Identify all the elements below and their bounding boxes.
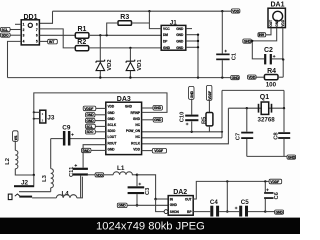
capacitor C4 (210, 199, 219, 216)
svg-text:C6: C6 (274, 191, 280, 199)
wire gnd rail (8, 77, 231, 79)
inductor L1 (104, 165, 137, 175)
label VDD R4 (248, 75, 257, 80)
wire left vert up (221, 90, 223, 137)
svg-text:4: 4 (23, 39, 25, 43)
svg-text:DD1: DD1 (24, 14, 38, 21)
wire R2 line to J1 (89, 47, 162, 49)
label GND DA1 (243, 39, 252, 44)
node C5 C6 gnd (264, 210, 266, 212)
wire SHDN tie (156, 199, 164, 212)
IC DA2 (164, 189, 193, 215)
node gnd J1 (197, 76, 199, 78)
label INH (258, 33, 266, 38)
svg-text:GND: GND (288, 156, 296, 160)
wire J1 VCC from rail (149, 11, 161, 28)
wire J2 middle contact (19, 191, 51, 193)
label GND L2 (86, 113, 106, 118)
label GND crystal (287, 155, 296, 160)
svg-text:1: 1 (23, 22, 25, 26)
diode VD2 (96, 35, 113, 77)
svg-text:ROUT: ROUT (108, 141, 117, 145)
svg-text:SDO: SDO (2, 34, 10, 38)
svg-text:VDDF: VDDF (208, 91, 212, 100)
svg-text:VDD: VDD (281, 19, 285, 26)
node C3 gnd (136, 204, 139, 207)
wire J3 stubs (34, 112, 40, 118)
node POW vert (221, 131, 223, 133)
wire C2 left from gnd line (252, 41, 264, 59)
node top rail J1 (148, 10, 150, 12)
wire top rail (53, 10, 232, 12)
wire antenna vert down (33, 112, 35, 175)
wire DA1 VDD down (282, 28, 284, 60)
svg-text:VDD: VDD (232, 9, 240, 13)
node J3 top (33, 111, 35, 113)
resistor R5 (202, 101, 213, 132)
node bp mid (226, 210, 228, 212)
label W1 antenna rot (13, 131, 18, 142)
wire ROUT to C11 (83, 145, 106, 168)
svg-text:C7: C7 (236, 133, 242, 140)
capacitor C3 (128, 175, 152, 206)
wire crystal top edge (222, 89, 284, 91)
svg-text:VCC: VCC (163, 27, 170, 31)
svg-text:GND: GND (163, 46, 171, 50)
capacitor C2 (264, 47, 283, 64)
svg-text:GND: GND (232, 76, 240, 80)
svg-text:GND: GND (108, 111, 116, 115)
capacitor C10 (179, 99, 198, 131)
node J3 bottom (33, 118, 35, 120)
svg-text:6: 6 (36, 34, 38, 38)
watermark band (0, 218, 300, 234)
svg-text:SCL: SCL (2, 28, 9, 32)
resistor R3 (118, 14, 132, 25)
label GND rail end (231, 76, 240, 81)
svg-text:VDDF: VDDF (270, 180, 279, 184)
svg-text:DM: DM (163, 33, 168, 37)
label GND DA2 (117, 203, 127, 208)
svg-text:C3: C3 (145, 187, 151, 195)
node crystal right (283, 107, 285, 109)
svg-text:J3: J3 (47, 114, 55, 121)
svg-text:NC: NC (135, 135, 140, 139)
IC DD1 (21, 14, 39, 45)
svg-text:C8: C8 (273, 132, 279, 140)
IC DA3 (106, 96, 142, 155)
wire DD1 pin2 (10, 29, 21, 31)
label VDD C11 (95, 173, 104, 178)
svg-text:C11: C11 (69, 166, 75, 177)
svg-text:2: 2 (23, 28, 25, 32)
wire DD1 pin4 to gnd rail (8, 41, 22, 77)
svg-text:OUT: OUT (185, 197, 192, 201)
svg-text:VDD: VDD (96, 173, 104, 177)
inductor L4 (56, 177, 82, 198)
svg-text:NC: NC (135, 123, 140, 127)
wire DA1 OUT to label (266, 28, 271, 35)
svg-text:LOUT: LOUT (108, 135, 117, 139)
svg-text:VDDF: VDDF (84, 107, 93, 111)
node L1 C3 (136, 174, 139, 177)
svg-text:GND: GND (86, 113, 94, 117)
capacitor C6 (264, 181, 280, 211)
svg-text:GND: GND (176, 40, 184, 44)
svg-text:1024x749 80kb JPEG: 1024x749 80kb JPEG (96, 221, 205, 233)
capacitor C1 (216, 11, 237, 77)
inductor L3 (42, 139, 54, 192)
wire J2 sleeve to L4 (32, 197, 56, 199)
node J1 gnd 4 (197, 46, 199, 48)
connector J1 (161, 20, 186, 51)
svg-text:R1: R1 (78, 26, 87, 33)
wire DD1 pin8 to rail (39, 11, 52, 23)
label VDDF rail (269, 179, 282, 184)
resistor R2 (75, 39, 88, 51)
svg-text:L3: L3 (42, 174, 48, 182)
svg-text:C9: C9 (62, 125, 71, 132)
wire J1 gnd vertical (197, 35, 199, 78)
node top rail C1 (221, 10, 223, 12)
diode VD1 (126, 48, 143, 78)
label VDDF R8 (142, 148, 167, 153)
jack J2 (8, 175, 34, 200)
wire row6 line (142, 137, 222, 139)
svg-text:POW_ON: POW_ON (126, 129, 141, 133)
label GND C5 (275, 210, 284, 215)
svg-text:SDO: SDO (86, 130, 94, 134)
label GND R1 (142, 106, 163, 111)
node gnd C1 (221, 76, 223, 78)
svg-text:GND: GND (176, 27, 184, 31)
resistor R1 (75, 26, 89, 38)
svg-text:5: 5 (36, 39, 38, 43)
svg-text:VDD: VDD (248, 76, 256, 80)
label SCL L4 (86, 124, 106, 129)
svg-text:C4: C4 (210, 199, 218, 206)
node gnd VD2 (99, 76, 101, 78)
capacitor C8 (273, 108, 290, 156)
svg-text:C1: C1 (232, 52, 238, 60)
wire DD1 pin6 to R1 (39, 34, 75, 36)
svg-text:GND: GND (190, 90, 194, 98)
wire crystal gnd rail (247, 155, 287, 157)
svg-text:Q1: Q1 (260, 94, 269, 101)
wire DD1 pin5 to label (39, 40, 47, 42)
node DA2 IN (154, 198, 157, 201)
wire to gnd label (265, 211, 274, 213)
svg-text:R5: R5 (202, 116, 208, 124)
wire DD1 pin7 jog to R2 (39, 29, 75, 48)
node C7 (246, 107, 248, 109)
inductor L2 (5, 141, 34, 175)
wire R3 left (107, 23, 118, 35)
svg-text:C2: C2 (264, 47, 273, 54)
wire BP line (193, 211, 265, 213)
regulator DA1 (268, 2, 285, 28)
label SDO (1, 33, 11, 38)
svg-text:GND: GND (170, 203, 178, 207)
label GND L3 (86, 118, 106, 123)
svg-text:GND: GND (108, 147, 116, 151)
svg-text:GND: GND (154, 118, 162, 122)
svg-text:L1: L1 (117, 165, 125, 172)
node C2 vdd rail (282, 58, 284, 60)
svg-text:VDD: VDD (133, 147, 140, 151)
svg-text:RFINP: RFINP (130, 111, 140, 115)
wire crystal line (228, 107, 284, 109)
capacitor C7 (236, 108, 254, 156)
wire DA1 GND to label (249, 28, 276, 41)
connector J3 (40, 110, 55, 123)
svg-text:C10: C10 (179, 112, 185, 123)
wire vdd vert to R4 (282, 60, 284, 78)
node antenna L2 J2 (33, 174, 35, 176)
wire to DA2 IN (137, 175, 156, 199)
label VDDF rot R5 (207, 85, 212, 100)
svg-text:GND: GND (244, 40, 252, 44)
svg-text:INH: INH (259, 33, 265, 37)
svg-text:32768: 32768 (258, 117, 276, 124)
svg-text:8: 8 (36, 22, 38, 26)
svg-text:VDD: VDD (108, 105, 115, 109)
capacitor C9 (51, 125, 106, 146)
wire DA2 OUT rail (193, 181, 269, 199)
svg-text:SHDN: SHDN (170, 210, 180, 214)
resistor R4 (256, 68, 283, 88)
wire POW line from DA3 (142, 131, 222, 133)
label SDO L5 (86, 130, 106, 135)
svg-text:DA2: DA2 (173, 189, 187, 196)
wire DD1 pin3 (10, 34, 21, 36)
wire RFINP to antenna (34, 93, 167, 113)
label GND L8 (82, 148, 106, 153)
node C10 bottom (191, 131, 193, 133)
wire gnd label to da2 (127, 204, 168, 206)
svg-text:GND: GND (118, 204, 126, 208)
node R2/VD1 (129, 47, 131, 49)
wire right down to crystal line (283, 90, 285, 108)
svg-text:GND: GND (176, 33, 184, 37)
label GND R3 (142, 118, 163, 123)
svg-text:SCLK: SCLK (108, 123, 117, 127)
svg-text:GND: GND (276, 211, 284, 215)
svg-text:7: 7 (36, 28, 38, 32)
node R1/VD2 (99, 34, 101, 36)
label GND rot C10 (189, 86, 194, 99)
wire J1 right stubs (186, 28, 192, 30)
wire R1 line to J1 (89, 34, 161, 36)
svg-text:GND: GND (86, 119, 94, 123)
svg-text:GND: GND (108, 117, 116, 121)
svg-text:W1: W1 (14, 135, 18, 140)
svg-text:VD1: VD1 (137, 59, 143, 71)
crystal Q1 (258, 94, 276, 123)
wire DD1 pin1 stub (15, 23, 21, 25)
svg-text:100: 100 (266, 82, 277, 89)
svg-text:OUT: OUT (269, 20, 273, 27)
svg-text:VD2: VD2 (107, 59, 113, 70)
node rail C4C5 vert (226, 180, 228, 182)
svg-text:RCLK: RCLK (131, 141, 141, 145)
label VDDF (83, 106, 106, 111)
svg-text:C5: C5 (241, 199, 249, 206)
node J1 gnd 3 (197, 40, 199, 42)
label VDD top right (231, 9, 240, 14)
svg-text:VDDF: VDDF (154, 149, 163, 153)
svg-text:SDIO: SDIO (108, 129, 116, 133)
node da1 gnd (251, 40, 253, 42)
capacitor C11 (69, 164, 95, 198)
wire C4C5 vert (226, 181, 228, 211)
svg-text:GND: GND (125, 105, 133, 109)
label INT (48, 39, 58, 44)
node R1/R3 (106, 34, 108, 36)
node J1 gnd 2 (197, 34, 199, 36)
node gnd VD1 (129, 76, 131, 78)
svg-text:L2: L2 (5, 158, 11, 165)
svg-text:GND: GND (275, 19, 279, 27)
wire RCLK line (142, 108, 229, 144)
svg-text:SCL: SCL (86, 125, 93, 129)
node rail C6 (264, 180, 266, 182)
label SCL (1, 27, 11, 32)
capacitor C5 (235, 199, 249, 216)
svg-text:3: 3 (23, 34, 25, 38)
svg-text:GND: GND (133, 117, 141, 121)
svg-text:GND: GND (154, 106, 162, 110)
wire IN to DA2 (156, 198, 169, 200)
svg-text:GND: GND (176, 46, 184, 50)
wire R3 right (132, 22, 150, 24)
